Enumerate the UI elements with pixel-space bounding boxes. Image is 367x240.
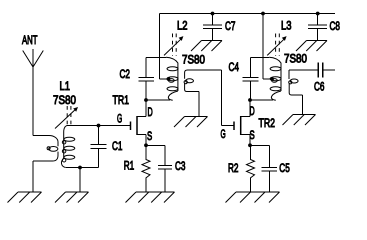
capacitor C6 (318, 63, 322, 78)
svg-text:R2: R2 (228, 161, 239, 175)
svg-text:TR1: TR1 (113, 93, 130, 107)
ground (L3 secondary) (283, 115, 316, 126)
wire gate row TR1 (67, 125, 131, 127)
resistor R1 (142, 145, 150, 192)
svg-text:L2: L2 (177, 19, 188, 33)
wire TR2 gate drop (221, 70, 234, 126)
tuning core dashed line (L2) (173, 34, 177, 57)
node L1 secondary bottom (78, 166, 82, 170)
capacitor C5 (262, 167, 277, 192)
svg-text:L3: L3 (281, 19, 292, 33)
ground (C7) (191, 41, 222, 52)
node TR2 drain / C4 bottom (248, 98, 252, 102)
svg-text:7S80: 7S80 (284, 52, 307, 66)
capacitor C4 (243, 57, 270, 100)
wire TR2 source to C5 (250, 145, 269, 167)
svg-text:7S80: 7S80 (182, 53, 205, 67)
antenna ANT (23, 49, 44, 136)
resistor R2 (247, 145, 255, 192)
svg-text:D: D (148, 105, 153, 119)
node rail C7 (211, 12, 215, 16)
wire L1 bottom ground drop (79, 168, 81, 193)
node TR2 source (248, 143, 252, 147)
ground (R2 C5) (226, 192, 280, 203)
wire TR2 drain to L3 primary bottom (250, 99, 273, 101)
capacitor C1 (91, 126, 107, 168)
tuning arrow (L2) (164, 36, 183, 55)
svg-text:C1: C1 (112, 139, 123, 153)
transistor TR2 (234, 100, 250, 145)
capacitor C2 (139, 57, 167, 100)
wire output (322, 69, 335, 71)
svg-text:C6: C6 (314, 80, 325, 94)
transformer L2 primary winding (166, 57, 178, 100)
transformer L3 secondary winding (289, 70, 303, 115)
capacitor C7 (203, 14, 222, 41)
tuning core dashed line (L3) (276, 34, 280, 57)
svg-text:TR2: TR2 (259, 116, 276, 130)
svg-text:G: G (221, 127, 226, 141)
wire TR1 source to C3 (146, 145, 165, 165)
svg-text:R1: R1 (124, 159, 135, 173)
node rail C8 (316, 12, 320, 16)
svg-text:D: D (250, 104, 255, 118)
node C1 top (97, 124, 101, 128)
svg-text:G: G (117, 112, 122, 126)
transformer L1 secondary winding (61, 126, 74, 168)
svg-text:S: S (147, 129, 152, 143)
wire rail drop to L2 (160, 14, 168, 80)
wire TR1 drain to L2 primary bottom (146, 99, 170, 101)
node rail L3 drop (261, 12, 265, 16)
transistor TR1 (131, 100, 147, 145)
transformer L3 primary winding (269, 57, 281, 100)
ground (C8) (296, 41, 327, 52)
tuning arrow (L1) (55, 107, 78, 129)
svg-text:ANT: ANT (22, 33, 38, 47)
svg-text:7S80: 7S80 (53, 93, 76, 107)
svg-text:C2: C2 (120, 67, 131, 81)
svg-text:C4: C4 (229, 60, 240, 74)
node L3 primary tap (270, 77, 274, 81)
capacitor C3 (158, 165, 172, 192)
transformer L1 primary winding (33, 136, 58, 193)
svg-text:C3: C3 (175, 159, 186, 173)
ground (L2 secondary) (174, 117, 208, 128)
capacitor C8 (308, 14, 327, 41)
ground (L1 secondary) (55, 192, 89, 203)
svg-text:C5: C5 (279, 161, 290, 175)
ground (antenna) (8, 192, 42, 203)
node L2 primary tap (167, 77, 171, 81)
svg-text:L1: L1 (60, 79, 71, 93)
wire L3 secondary to C6 (289, 69, 318, 71)
node TR1 drain / C2 bottom (144, 98, 148, 102)
wire rail drop to L3 (263, 14, 271, 80)
tuning core dashed line (L1) (67, 106, 71, 126)
wire L1 bottom to C1 (66, 167, 99, 169)
node TR1 source (144, 143, 148, 147)
svg-text:S: S (250, 128, 255, 142)
wire top supply rail (160, 13, 336, 15)
ground (R1 C3) (126, 192, 175, 203)
tuning arrow (L3) (267, 36, 286, 55)
svg-text:C7: C7 (225, 19, 236, 33)
svg-text:C8: C8 (330, 19, 341, 33)
transformer L2 secondary winding (184, 70, 221, 117)
